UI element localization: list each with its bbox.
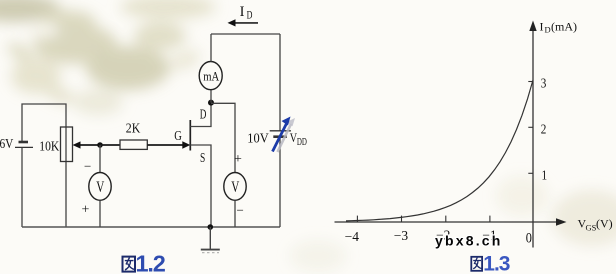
wire: top-left loop battery to potentiometer: [22, 104, 66, 141]
potentiometer RP 10K: [39, 127, 100, 162]
svg-text:I: I: [540, 20, 544, 34]
x axis: [335, 217, 613, 233]
svg-text:G: G: [174, 127, 182, 143]
wire: top rail: [211, 33, 280, 35]
node drain junction dot: [208, 100, 214, 106]
wire: gate lead with arrow: [147, 127, 190, 148]
svg-text:V: V: [231, 178, 239, 195]
resistor R1 2K: [120, 121, 147, 150]
svg-text:D: D: [545, 25, 551, 35]
svg-text:−3: −3: [394, 228, 409, 243]
svg-text:DD: DD: [297, 136, 307, 148]
wire: bottom ground rail: [22, 226, 280, 228]
svg-text:3: 3: [541, 75, 547, 90]
svg-text:6V: 6V: [0, 136, 13, 151]
svg-text:2: 2: [541, 121, 547, 136]
svg-text:−: −: [237, 203, 244, 218]
svg-text:+: +: [82, 203, 90, 218]
transfer curve: [346, 80, 533, 221]
svg-text:−: −: [84, 159, 91, 174]
svg-text:D: D: [200, 108, 207, 122]
svg-text:(mA): (mA): [551, 20, 577, 34]
battery B2 VDD 10V (variable): [247, 117, 307, 153]
caption 图1.3: [471, 252, 510, 274]
svg-text:0: 0: [526, 229, 532, 245]
caption 图1.2: [123, 250, 166, 274]
voltmeter V2: [224, 152, 246, 227]
wire: VDD branch vertical: [279, 34, 281, 227]
svg-text:D: D: [247, 9, 253, 22]
y axis: [529, 20, 577, 248]
ammeter mA: [199, 34, 222, 103]
svg-text:1: 1: [542, 167, 548, 182]
y ticks: [528, 82, 533, 174]
wire: potentiometer bottom to ground rail: [65, 127, 67, 227]
svg-text:10V: 10V: [247, 130, 269, 146]
svg-text:I: I: [240, 4, 245, 20]
svg-text:1.2: 1.2: [136, 250, 166, 274]
svg-text:2K: 2K: [126, 121, 141, 136]
wire: drain node to voltmeter V2: [211, 103, 235, 172]
voltmeter V1: [82, 145, 112, 227]
svg-text:ybx8.ch: ybx8.ch: [435, 233, 503, 249]
svg-text:1.3: 1.3: [483, 252, 510, 274]
svg-text:GS: GS: [586, 223, 597, 233]
wire: left vertical below battery: [21, 148, 23, 228]
transistor Q1 JFET: [190, 103, 211, 227]
x ticks: [357, 216, 490, 222]
svg-text:(V): (V): [596, 217, 613, 231]
wire: node A to resistor 2K: [100, 144, 120, 146]
svg-text:+: +: [234, 152, 242, 167]
svg-text:mA: mA: [203, 70, 220, 84]
svg-text:S: S: [200, 150, 205, 165]
current arrow ID: [228, 4, 259, 27]
ground: [201, 227, 220, 253]
svg-text:10K: 10K: [39, 139, 59, 154]
svg-text:V: V: [96, 178, 104, 195]
battery B1 6V: [0, 136, 33, 151]
node A junction dot: [97, 142, 103, 148]
ground junction dot: [208, 224, 214, 230]
svg-text:−4: −4: [345, 229, 360, 244]
